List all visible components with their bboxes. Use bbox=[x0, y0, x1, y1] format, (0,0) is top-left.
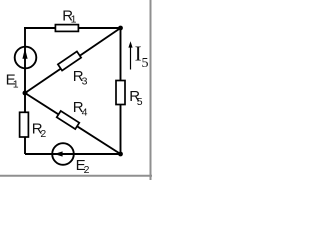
resistor R1 bbox=[55, 25, 78, 32]
svg-text:2: 2 bbox=[40, 128, 46, 140]
resistor R4 bbox=[57, 111, 80, 129]
wire right vertical: B to D bbox=[120, 28, 122, 154]
wire top: node A to node B bbox=[24, 27, 121, 29]
border frame right bbox=[150, 0, 152, 180]
node D junction dot bbox=[118, 152, 123, 157]
source E1 arrow bbox=[22, 48, 27, 59]
svg-text:3: 3 bbox=[82, 76, 88, 88]
source E1 bbox=[15, 47, 37, 69]
svg-text:4: 4 bbox=[82, 107, 88, 119]
wire bottom: C-corner to node D through E2 bbox=[25, 153, 121, 155]
resistor R2 bbox=[20, 112, 29, 137]
wire diagonal R3 branch: C to B bbox=[25, 28, 121, 93]
resistor R3 bbox=[58, 51, 81, 70]
svg-text:2: 2 bbox=[84, 164, 90, 176]
border frame bottom bbox=[0, 175, 152, 177]
svg-text:5: 5 bbox=[142, 56, 149, 71]
resistor R5 bbox=[116, 81, 125, 105]
node B junction dot bbox=[118, 26, 123, 31]
source E2 arrow bbox=[54, 151, 63, 156]
source E2 bbox=[52, 143, 74, 165]
current I5 arrow bbox=[130, 46, 132, 70]
svg-text:1: 1 bbox=[13, 78, 19, 90]
svg-text:5: 5 bbox=[137, 96, 143, 108]
wire left vertical: A to C through E1 bbox=[24, 27, 26, 154]
node C junction dot bbox=[23, 91, 28, 96]
svg-text:1: 1 bbox=[71, 14, 77, 26]
wire diagonal R4 branch: C to D bbox=[25, 93, 121, 154]
